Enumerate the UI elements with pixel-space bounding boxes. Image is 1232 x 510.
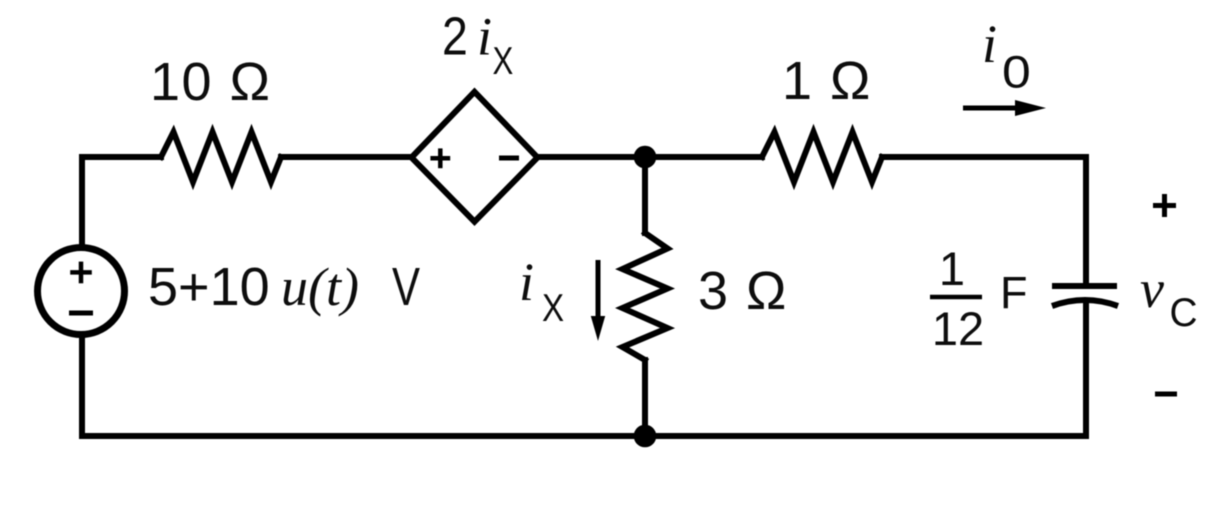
minus sign vc bbox=[1155, 392, 1177, 397]
resistor R 10-ohm zigzag bbox=[161, 132, 281, 182]
arrow io bbox=[963, 106, 1018, 111]
wire: 10-ohm to dependent source bbox=[281, 154, 409, 160]
svg-text:X: X bbox=[493, 40, 514, 83]
plus sign inside source V1 bbox=[70, 262, 92, 284]
minus sign inside source V1 bbox=[69, 311, 93, 316]
svg-text:F: F bbox=[1000, 267, 1028, 318]
svg-text:V: V bbox=[392, 257, 420, 317]
resistor R 1-ohm zigzag bbox=[762, 132, 882, 182]
junction dot (bottom) bbox=[634, 425, 657, 448]
svg-text:5+10: 5+10 bbox=[148, 257, 270, 317]
svg-text:2: 2 bbox=[442, 5, 468, 66]
wire: node A down to 3-ohm bbox=[642, 157, 648, 233]
wire bottom rail bbox=[82, 433, 1086, 439]
svg-text:u(t): u(t) bbox=[281, 257, 359, 317]
svg-text:i: i bbox=[477, 7, 492, 67]
node A junction dot (top) bbox=[634, 146, 657, 169]
svg-text:0: 0 bbox=[1002, 48, 1031, 98]
minus sign inside diamond bbox=[499, 156, 519, 161]
svg-text:C: C bbox=[1170, 290, 1198, 335]
resistor R 3-ohm vertical zigzag bbox=[623, 233, 668, 360]
wire: 3-ohm to bottom rail bbox=[642, 360, 648, 436]
capacitor C1 top plate bbox=[1052, 283, 1117, 289]
dependent source U1 diamond bbox=[412, 92, 538, 222]
arrow ix (down) bbox=[596, 260, 601, 320]
capacitor C1 curved bottom plate bbox=[1052, 300, 1118, 306]
wire: 1-ohm to top-right corner down to capacitor bbox=[882, 157, 1086, 284]
svg-text:1: 1 bbox=[939, 242, 965, 295]
voltage source V1 circle bbox=[38, 248, 125, 335]
svg-text:10 Ω: 10 Ω bbox=[150, 52, 271, 112]
svg-text:3 Ω: 3 Ω bbox=[698, 261, 788, 321]
plus sign vc bbox=[1153, 194, 1176, 217]
wire: diamond to node A bbox=[539, 154, 762, 160]
svg-text:X: X bbox=[542, 285, 564, 329]
svg-text:v: v bbox=[1140, 259, 1164, 319]
svg-text:12: 12 bbox=[932, 302, 984, 355]
wire: source bottom to bottom rail bbox=[79, 336, 85, 436]
wire top-left: from source top to corner to 10-ohm resistor bbox=[82, 157, 161, 247]
svg-text:i: i bbox=[519, 252, 534, 312]
svg-text:i: i bbox=[982, 14, 997, 74]
wire: capacitor to bottom-right corner bbox=[1083, 302, 1089, 436]
plus sign inside diamond bbox=[430, 148, 450, 168]
svg-text:1 Ω: 1 Ω bbox=[782, 51, 872, 111]
